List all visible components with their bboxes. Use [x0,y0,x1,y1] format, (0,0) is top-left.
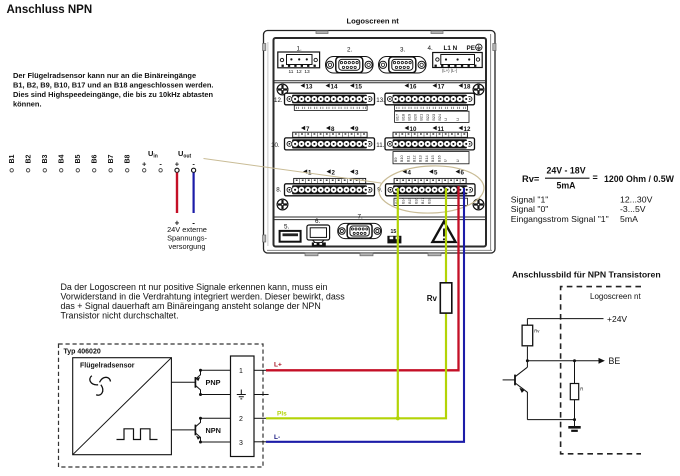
svg-text:-3...5V: -3...5V [620,204,646,214]
svg-text:PNP: PNP [206,378,221,387]
svg-text:L+: L+ [274,362,282,369]
svg-text:Flügelradsensor: Flügelradsensor [80,363,135,370]
svg-text:7.: 7. [358,214,364,221]
svg-text:L-: L- [274,434,280,441]
svg-text:+24V: +24V [607,314,627,324]
svg-text:2.: 2. [347,46,353,53]
svg-text:B13: B13 [418,155,423,162]
svg-text:L1 N: L1 N [444,45,458,52]
svg-text:Logoscreen nt: Logoscreen nt [590,292,641,301]
svg-text:B19: B19 [407,114,412,121]
svg-text:1: 1 [239,368,243,375]
svg-text:Der Flügelradsensor kann nur a: Der Flügelradsensor kann nur an die Binä… [13,71,196,80]
svg-text:Signal "0": Signal "0" [511,204,549,214]
svg-text:12.: 12. [274,97,283,104]
svg-text:B17: B17 [395,114,400,121]
svg-text:12: 12 [296,69,302,75]
svg-text:B17: B17 [421,198,425,204]
svg-text:5mA: 5mA [620,214,638,224]
svg-text:Da der Logoscreen nt nur posit: Da der Logoscreen nt nur positive Signal… [61,282,328,292]
svg-text:B18: B18 [428,198,432,204]
svg-text:Pls: Pls [277,411,287,418]
svg-text:11.: 11. [376,142,384,149]
svg-text:Rv=: Rv= [522,174,540,184]
svg-text:5: 5 [434,169,438,176]
svg-text:B12: B12 [412,155,417,162]
svg-text:B22: B22 [425,114,430,121]
svg-text:Signal "1": Signal "1" [511,194,549,204]
svg-text:B16: B16 [415,198,419,204]
svg-text:5.: 5. [284,224,290,231]
svg-text:B1: B1 [9,154,16,163]
svg-text:13: 13 [306,83,313,90]
svg-text:U: U [455,159,460,162]
svg-text:Rv: Rv [534,328,540,333]
svg-text:BE: BE [609,356,621,366]
svg-text:B15: B15 [408,198,412,204]
svg-text:17: 17 [438,83,445,90]
svg-text:Anschlussbild für NPN Transist: Anschlussbild für NPN Transistoren [512,269,661,279]
svg-text:B14: B14 [424,154,429,162]
svg-text:15: 15 [391,229,397,235]
svg-text:24V - 18V: 24V - 18V [546,165,585,175]
svg-text:+: + [175,160,180,169]
svg-text:B14: B14 [402,198,406,204]
svg-text:4: 4 [408,169,412,176]
svg-text:B6: B6 [92,154,99,163]
svg-text:Dies sind Highspeedeingänge, d: Dies sind Highspeedeingänge, die bis zu … [13,90,213,99]
svg-text:U: U [455,118,460,121]
svg-text:NPN: NPN [206,426,221,435]
svg-text:3: 3 [355,169,359,176]
svg-text:B5: B5 [75,154,82,163]
svg-text:B24: B24 [437,113,442,121]
svg-text:13.: 13. [376,97,385,104]
svg-text:5mA: 5mA [556,181,576,191]
svg-text:B10: B10 [399,154,404,162]
svg-text:B11: B11 [405,156,410,163]
svg-text:3: 3 [239,440,243,447]
svg-text:Anschluss NPN: Anschluss NPN [7,4,93,16]
svg-text:3.: 3. [400,46,406,53]
svg-text:B21: B21 [419,114,424,121]
svg-text:Logoscreen nt: Logoscreen nt [347,16,400,25]
svg-text:+: + [142,160,147,169]
svg-text:11: 11 [289,69,294,75]
svg-text:R: R [580,387,583,392]
svg-text:10.: 10. [271,142,280,149]
svg-text:14: 14 [331,83,338,90]
svg-text:Vorwiderstand in die Verdrahtu: Vorwiderstand in die Verdrahtung integri… [61,292,346,302]
svg-text:6.: 6. [315,218,321,225]
svg-text:4.: 4. [428,45,434,52]
svg-text:B3: B3 [42,154,49,163]
svg-text:2: 2 [239,416,243,423]
svg-text:(L+) (L-): (L+) (L-) [442,68,458,73]
svg-text:B8: B8 [125,154,132,163]
svg-text:=: = [593,173,598,183]
svg-text:U: U [442,159,447,162]
svg-text:B23: B23 [431,114,436,121]
svg-text:versorgung: versorgung [169,242,206,251]
svg-text:12...30V: 12...30V [620,194,653,204]
svg-text:Typ 406020: Typ 406020 [64,349,101,356]
svg-text:Eingangsstrom Signal "1": Eingangsstrom Signal "1" [511,214,609,224]
svg-text:15: 15 [355,83,362,90]
svg-text:13: 13 [304,69,310,75]
svg-text:B15: B15 [430,155,435,162]
svg-text:Rv: Rv [427,294,438,303]
svg-text:16: 16 [410,83,417,90]
svg-text:2: 2 [332,169,336,176]
svg-text:das + Signal dauerhaft am Binä: das + Signal dauerhaft am Binäreingang a… [61,301,321,311]
svg-text:B9: B9 [393,157,398,162]
svg-text:Transistor nicht durchschaltet: Transistor nicht durchschaltet. [61,311,179,321]
svg-text:B18: B18 [401,114,406,121]
svg-text:B16: B16 [436,155,441,162]
svg-text:B4: B4 [59,154,66,163]
svg-text:B7: B7 [108,154,115,163]
svg-text:PE: PE [467,45,475,52]
svg-text:B20: B20 [413,113,418,121]
svg-text:können.: können. [13,99,42,108]
svg-text:1200 Ohm / 0.5W: 1200 Ohm / 0.5W [604,174,675,184]
svg-text:B1, B2, B9, B10, B17 und an B1: B1, B2, B9, B10, B17 und an B18 angeschl… [13,80,213,89]
svg-text:18: 18 [464,83,471,90]
svg-text:U: U [443,118,448,121]
svg-text:8.: 8. [276,187,281,194]
svg-text:B2: B2 [26,154,33,163]
